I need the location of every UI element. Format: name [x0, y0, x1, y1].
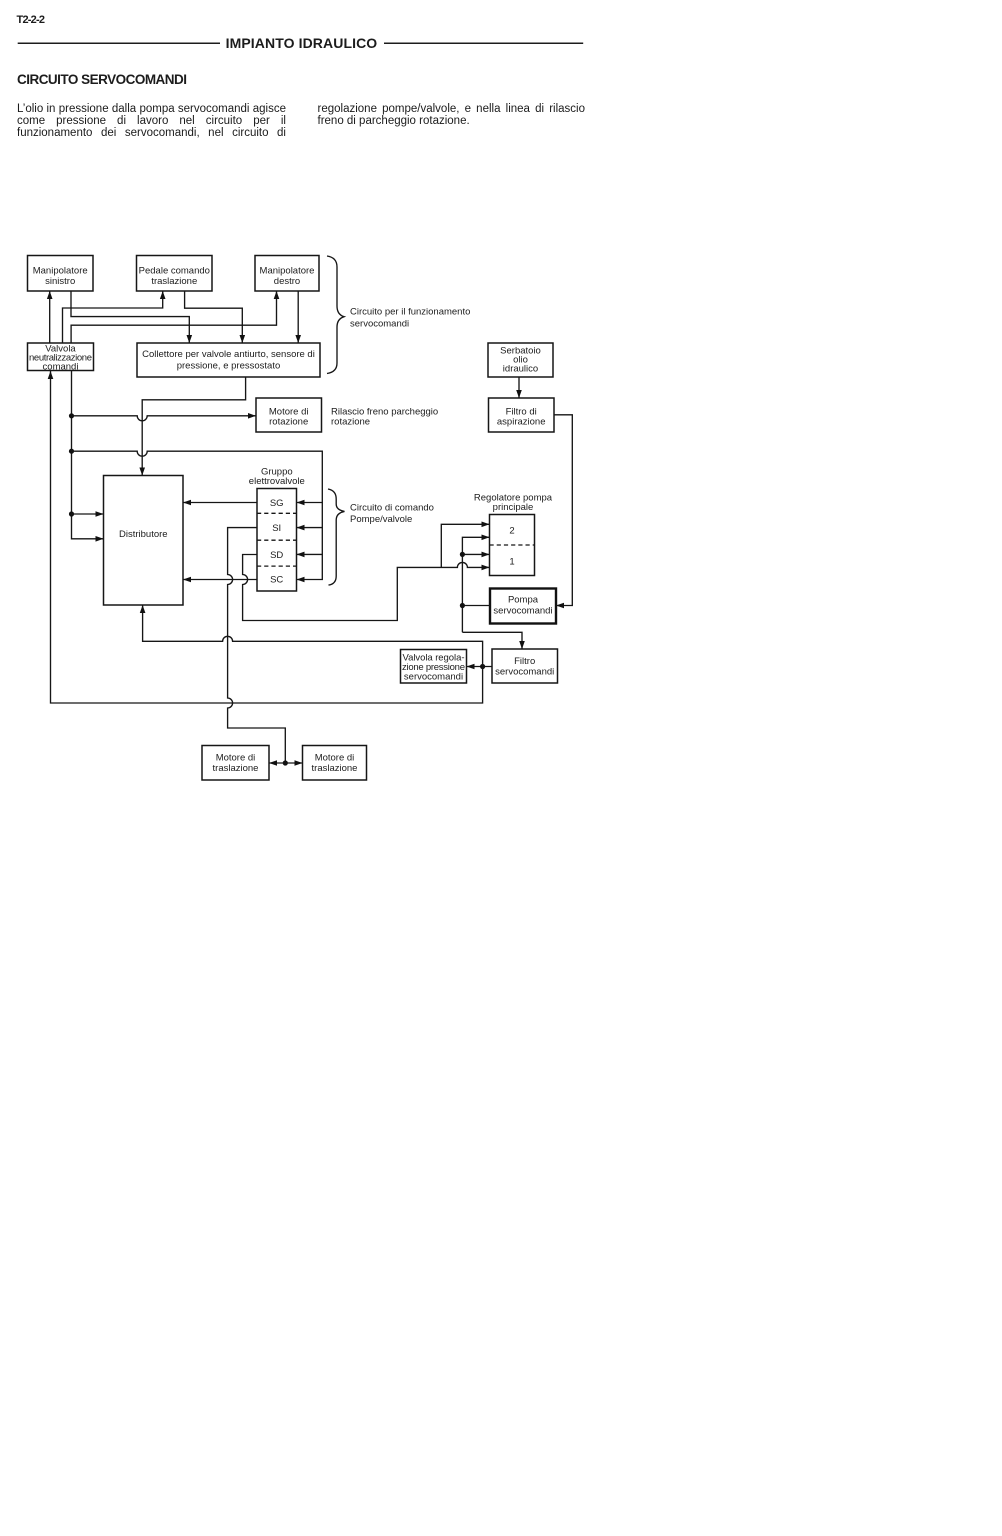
svg-text:Motore di: Motore di: [315, 753, 355, 764]
wire Manipolatore sinistro to Collettore: [71, 291, 192, 343]
box Serbatoio olio idraulico: [488, 343, 553, 377]
wire Collettore to Distributore: [139, 377, 245, 476]
svg-text:IMPIANTO IDRAULICO: IMPIANTO IDRAULICO: [226, 35, 378, 51]
wire Valvola to Manipolatore sinistro: [47, 291, 53, 343]
svg-text:Pompe/valvole: Pompe/valvole: [350, 514, 412, 525]
wire SC to Distributore: [183, 577, 257, 583]
svg-text:sinistro: sinistro: [45, 276, 75, 287]
box Motore di traslazione left: [202, 746, 269, 781]
wire Filtro servocomandi to Valvola regolazione: [467, 664, 493, 670]
wire Serbatoio to Filtro di aspirazione: [516, 377, 522, 398]
box regolatore pompa principale: [490, 515, 535, 576]
svg-text:SI: SI: [272, 523, 281, 534]
wire SD to regolatore: [243, 522, 490, 621]
svg-text:Circuito di comando: Circuito di comando: [350, 503, 434, 514]
svg-text:Motore di: Motore di: [216, 753, 256, 764]
wire return loop Distributore and Valvola neutralizzazione: [48, 371, 483, 703]
svg-text:SD: SD: [270, 550, 283, 561]
svg-text:servocomandi: servocomandi: [495, 667, 554, 678]
box Pedale comando traslazione: [137, 256, 213, 292]
wire Pedale comando to Collettore: [185, 291, 246, 343]
svg-text:1: 1: [509, 557, 514, 568]
svg-text:aspirazione: aspirazione: [497, 417, 546, 428]
box Distributore: [104, 476, 184, 606]
svg-text:servocomandi: servocomandi: [493, 606, 552, 617]
svg-text:Circuito per il funzionamento: Circuito per il funzionamento: [350, 307, 470, 318]
svg-text:SC: SC: [270, 575, 283, 586]
box Manipolatore destro: [255, 256, 319, 292]
wire SG to Distributore: [183, 500, 257, 506]
box Filtro servocomandi: [492, 649, 558, 683]
svg-text:SG: SG: [270, 498, 284, 509]
header rule left: [18, 42, 220, 44]
svg-text:T2-2-2: T2-2-2: [17, 14, 46, 26]
svg-text:Filtro: Filtro: [514, 656, 535, 667]
box gruppo elettrovalvole SG SI SD SC: [257, 489, 297, 592]
body paragraph left column: [17, 103, 286, 139]
wire Valvola bottom trunk with junctions to Distributore: [69, 371, 104, 542]
box Pompa servocomandi: [490, 589, 556, 624]
svg-text:Manipolatore: Manipolatore: [260, 266, 315, 277]
svg-text:CIRCUITO SERVOCOMANDI: CIRCUITO SERVOCOMANDI: [17, 72, 187, 87]
svg-text:principale: principale: [493, 502, 534, 513]
svg-text:traslazione: traslazione: [151, 276, 197, 287]
svg-text:Distributore: Distributore: [119, 529, 168, 540]
svg-text:pressione, e pressostato: pressione, e pressostato: [177, 361, 281, 372]
svg-text:traslazione: traslazione: [312, 763, 358, 774]
box Motore di rotazione: [256, 398, 322, 432]
wire junction to elettrovalvole feed: [72, 451, 323, 582]
box Manipolatore sinistro: [28, 256, 94, 292]
svg-text:traslazione: traslazione: [213, 763, 259, 774]
box Valvola neutralizzazione comandi: [28, 343, 94, 373]
wire Filtro aspirazione to Pompa servocomandi: [554, 415, 572, 609]
svg-text:Manipolatore: Manipolatore: [33, 266, 88, 277]
svg-text:destro: destro: [274, 276, 300, 287]
svg-text:rotazione: rotazione: [331, 417, 370, 428]
wire Manipolatore destro to Collettore: [295, 291, 301, 343]
box Collettore per valvole antiurto: [137, 343, 320, 377]
svg-text:Pedale comando: Pedale comando: [139, 266, 210, 277]
svg-text:rotazione: rotazione: [269, 417, 308, 428]
svg-text:Pompa: Pompa: [508, 595, 539, 606]
wire junction to Motore di rotazione: [72, 413, 257, 421]
svg-text:idraulico: idraulico: [503, 364, 538, 375]
svg-text:servocomandi: servocomandi: [350, 319, 409, 330]
box Valvola regolazione pressione servocomandi: [401, 650, 467, 684]
svg-text:2: 2: [509, 526, 514, 537]
box Motore di traslazione right: [303, 746, 367, 781]
svg-text:elettrovalvole: elettrovalvole: [249, 476, 305, 487]
wire motori di traslazione arrows: [269, 760, 303, 766]
brace Circuito per il funzionamento servocomandi: [327, 256, 344, 374]
wire Valvola to Pedale comando: [63, 291, 166, 343]
svg-text:Collettore per valvole antiurt: Collettore per valvole antiurto, sensore…: [142, 349, 315, 360]
box Filtro di aspirazione: [489, 398, 555, 432]
svg-text:servocomandi: servocomandi: [404, 672, 463, 683]
header rule right: [384, 42, 583, 44]
brace Circuito di comando Pompe valvole: [328, 489, 345, 585]
wire Pompa servocomandi to regolatore and filtro servocomandi: [460, 535, 525, 650]
wire Valvola to Manipolatore destro: [71, 291, 279, 343]
wire SI to motori di traslazione: [228, 528, 288, 766]
svg-text:comandi: comandi: [43, 362, 79, 373]
body paragraph right column: [318, 103, 586, 127]
